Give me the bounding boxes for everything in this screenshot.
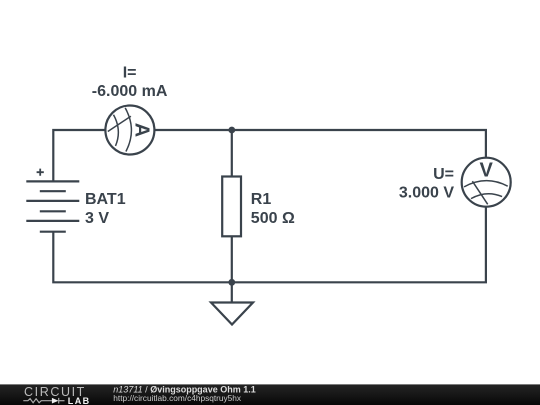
battery plus sign bbox=[37, 169, 44, 176]
ground bbox=[211, 303, 253, 325]
svg-text:-6.000 mA: -6.000 mA bbox=[92, 83, 168, 100]
logo diode triangle bbox=[52, 398, 59, 404]
wire resistor branch and ground stub bbox=[231, 130, 233, 303]
logo resistor zigzag and diode bbox=[23, 398, 64, 404]
svg-text:LAB: LAB bbox=[68, 396, 91, 405]
footer bar bbox=[0, 384, 540, 405]
resistor R1 bbox=[222, 177, 241, 237]
svg-text:BAT1: BAT1 bbox=[85, 191, 126, 208]
ammeter AM1 bbox=[105, 106, 154, 155]
svg-text:3.000 V: 3.000 V bbox=[399, 185, 454, 202]
svg-text:http://circuitlab.com/c4hpsqtr: http://circuitlab.com/c4hpsqtruy5hx bbox=[113, 393, 242, 403]
svg-text:U=: U= bbox=[433, 166, 454, 183]
node junction top bbox=[228, 127, 235, 134]
wire outer loop (top, right, bottom sides) bbox=[53, 130, 486, 282]
svg-text:R1: R1 bbox=[251, 191, 272, 208]
node junction bottom bbox=[228, 279, 235, 286]
svg-text:500 Ω: 500 Ω bbox=[251, 210, 295, 227]
svg-text:A: A bbox=[131, 123, 153, 137]
svg-text:V: V bbox=[480, 160, 494, 182]
voltmeter VM1 bbox=[462, 158, 511, 207]
svg-text:I=: I= bbox=[123, 64, 137, 81]
battery BAT1 bbox=[26, 181, 79, 231]
svg-text:3 V: 3 V bbox=[85, 210, 109, 227]
